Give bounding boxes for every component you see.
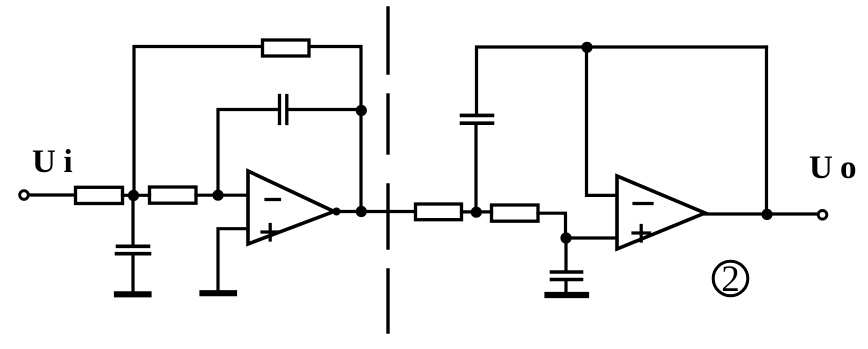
- wire node B to inverting input of U1: [218, 194, 248, 197]
- resistor R3: [416, 204, 462, 220]
- wire node D up to capacitor C3: [474, 125, 477, 207]
- U1 plus sign: [262, 225, 279, 241]
- svg-text:i: i: [64, 144, 73, 180]
- wire C4 to ground: [564, 281, 567, 292]
- capacitor C2 plates: [280, 96, 287, 124]
- output terminal: [818, 211, 827, 220]
- node G junction on top wire: [581, 42, 592, 53]
- resistor R5 feedback: [263, 40, 310, 56]
- wire node A up to top feedback: [134, 47, 262, 196]
- ground under C1: [117, 291, 149, 297]
- capacitor C4 wire from node C down: [564, 242, 567, 270]
- wire C2 to node E: [288, 108, 360, 111]
- op-amp U2: [617, 176, 705, 249]
- ground under U1 plus input: [203, 290, 235, 296]
- node B junction: [212, 190, 223, 201]
- U2 plus sign: [633, 226, 650, 242]
- U1 minus sign: [266, 198, 280, 201]
- wire node H up to top feedback wire: [765, 47, 768, 214]
- wire node B up to capacitor C2: [218, 110, 278, 191]
- wire C3 up to top feedback wire: [477, 47, 767, 114]
- capacitor C4 plates: [552, 272, 582, 280]
- svg-text:U: U: [32, 144, 56, 180]
- node A junction: [128, 190, 139, 201]
- U2 minus sign: [634, 202, 652, 205]
- node D junction: [471, 207, 482, 218]
- U1 output pin dot: [333, 208, 341, 216]
- node E junction (feedback cap to R5 branch): [356, 105, 367, 116]
- resistor R2: [150, 187, 197, 203]
- svg-text:2: 2: [721, 259, 740, 300]
- wire input to R1: [29, 193, 75, 196]
- svg-text:U: U: [809, 150, 833, 186]
- resistor R4: [492, 205, 539, 221]
- wire node C to U2 plus input: [566, 236, 617, 239]
- node F output junction: [356, 206, 367, 217]
- wire U1 output across dashed line to R3: [334, 210, 415, 213]
- wire R2 to node B: [196, 194, 217, 197]
- wire R1 to R2 through node A: [123, 194, 150, 197]
- node H output junction: [761, 209, 772, 220]
- dashed separator line: [386, 8, 389, 332]
- wire U1 plus input to ground: [218, 229, 248, 290]
- figure number circle 2: [713, 261, 748, 296]
- wire R4 down to node C: [538, 213, 566, 238]
- wire node G down to U2 inverting input: [587, 47, 618, 195]
- wire R5 to right vertical down to output node: [309, 47, 361, 212]
- resistor R1: [76, 187, 123, 203]
- wire C1 to ground: [131, 256, 134, 292]
- capacitor C1 plates: [117, 246, 150, 253]
- wire R3 to R4 through node D: [462, 210, 492, 213]
- svg-text:o: o: [840, 150, 857, 186]
- wire U2 output to output terminal: [705, 212, 818, 215]
- ground under C4: [548, 292, 587, 298]
- op-amp U1: [248, 171, 334, 244]
- node C junction: [560, 232, 571, 243]
- capacitor C1 wire from node A down: [131, 200, 134, 244]
- capacitor C3 plates: [462, 115, 493, 123]
- input terminal: [20, 191, 29, 200]
